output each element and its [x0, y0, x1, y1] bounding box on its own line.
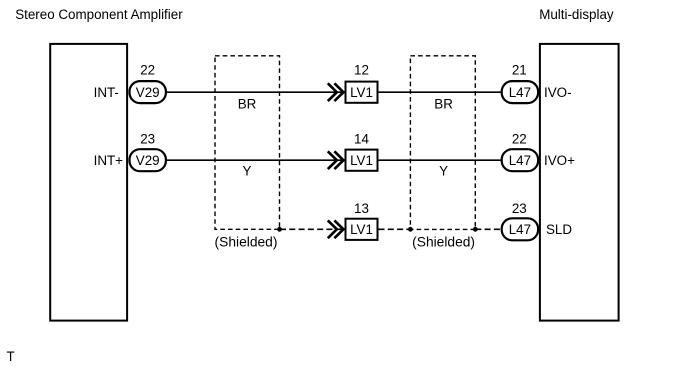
svg-text:L47: L47 [509, 222, 531, 237]
connector L47 pin 21 [502, 81, 538, 103]
svg-text:V29: V29 [136, 85, 160, 100]
svg-text:L47: L47 [509, 85, 531, 100]
joint connector LV1 pin 12 [346, 82, 378, 103]
svg-text:V29: V29 [136, 153, 160, 168]
pin number 13 (LV1 row 3) [354, 201, 369, 216]
page marker T [7, 349, 15, 364]
component title: Stereo Component Amplifier [15, 7, 183, 22]
svg-text:14: 14 [354, 131, 369, 146]
svg-text:BR: BR [238, 96, 257, 111]
arrow chevrons row 1 [328, 83, 344, 101]
shield drain wire row 3 (left box to LV1, dashed) [280, 228, 345, 230]
shield drain wire row 3 (right box to L47, dashed) [475, 228, 501, 230]
wire color label Y (right) [439, 163, 448, 178]
svg-text:INT-: INT- [94, 85, 119, 100]
shield drain wire row 3 (LV1 to right box, dashed) [379, 228, 411, 230]
svg-text:22: 22 [512, 131, 527, 146]
svg-text:(Shielded): (Shielded) [215, 234, 278, 249]
wire Y row 2 (LV1 to L47) [378, 159, 501, 161]
junction dot at right shield box bottom-left corner [408, 227, 413, 232]
shield box left (dashed) [215, 56, 280, 230]
svg-text:22: 22 [140, 63, 155, 78]
label (Shielded) left [215, 234, 278, 249]
svg-text:LV1: LV1 [350, 85, 373, 100]
pin number 23 (L47 row 3) [512, 201, 527, 216]
svg-text:Y: Y [439, 163, 448, 178]
svg-text:13: 13 [354, 201, 369, 216]
connector V29 pin 22 [130, 81, 166, 103]
pin label SLD [546, 222, 572, 237]
svg-text:Stereo Component Amplifier: Stereo Component Amplifier [15, 7, 183, 22]
component title: Multi-display [539, 7, 614, 22]
svg-text:12: 12 [354, 63, 369, 78]
svg-text:Multi-display: Multi-display [539, 7, 614, 22]
joint connector LV1 pin 14 [346, 150, 378, 171]
svg-text:(Shielded): (Shielded) [412, 234, 475, 249]
connector L47 pin 23 [502, 218, 538, 240]
svg-text:BR: BR [434, 96, 453, 111]
pin number 22 (L47 row 2) [512, 131, 527, 146]
wire BR row 1 (V29 to LV1) [167, 91, 345, 93]
wire Y row 2 (V29 to LV1) [167, 159, 345, 161]
pin number 23 (V29 row 2) [140, 131, 155, 146]
arrow chevrons row 2 [328, 151, 344, 169]
svg-text:21: 21 [512, 63, 527, 78]
pin number 12 (LV1 row 1) [354, 63, 369, 78]
pin number 21 (L47 row 1) [512, 63, 527, 78]
svg-text:23: 23 [512, 201, 527, 216]
wire color label BR (right) [434, 96, 453, 111]
arrow chevrons row 3 [328, 220, 344, 238]
pin number 14 (LV1 row 2) [354, 131, 369, 146]
wire BR row 1 (LV1 to L47) [378, 91, 501, 93]
connector block: Multi-display [540, 44, 619, 321]
connector L47 pin 22 [502, 149, 538, 171]
svg-text:LV1: LV1 [350, 222, 373, 237]
label (Shielded) right [412, 234, 475, 249]
svg-text:L47: L47 [509, 153, 531, 168]
wire color label Y (left) [243, 163, 252, 178]
pin label INT- [94, 85, 119, 100]
junction dot at left shield box bottom-right corner [277, 227, 282, 232]
pin number 22 (V29 row 1) [140, 63, 155, 78]
wire color label BR (left) [238, 96, 257, 111]
svg-text:IVO-: IVO- [544, 85, 572, 100]
svg-text:IVO+: IVO+ [544, 153, 575, 168]
joint connector LV1 pin 13 [346, 219, 378, 240]
junction dot at right shield box bottom-right corner [473, 227, 478, 232]
svg-text:23: 23 [140, 131, 155, 146]
connector V29 pin 23 [130, 149, 166, 171]
shield box right (dashed) [410, 56, 475, 230]
pin label INT+ [94, 153, 124, 168]
svg-text:INT+: INT+ [94, 153, 124, 168]
connector block: Stereo Component Amplifier [50, 44, 127, 321]
svg-text:SLD: SLD [546, 222, 572, 237]
svg-text:LV1: LV1 [350, 153, 373, 168]
svg-text:Y: Y [243, 163, 252, 178]
pin label IVO- [544, 85, 572, 100]
svg-text:T: T [7, 349, 15, 364]
pin label IVO+ [544, 153, 575, 168]
